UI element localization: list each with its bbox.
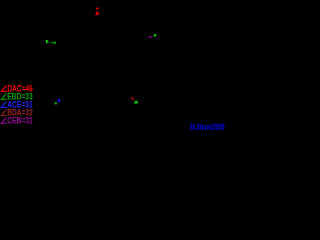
angle wedge at C (angle ACE, blue): [57, 98, 61, 102]
angle wedge at A (angle DAC, red): [95, 10, 99, 15]
vertex B marker nub: [48, 41, 49, 43]
angle symbol for line 5: [1, 118, 6, 124]
vertex B point marker (bright green bar): [46, 40, 48, 43]
angle symbol for line 3: [1, 102, 6, 108]
angle wedge near B (angle EBD, green): [49, 41, 56, 44]
vertex A point marker (red arc): [96, 8, 99, 10]
angle symbol for line 1: [1, 86, 6, 92]
vertex D point marker (green flag): [134, 101, 138, 104]
vertex C point marker (green square): [55, 102, 57, 104]
angle wedge at D (angle BDA, dark red streak): [131, 97, 134, 100]
angle symbol for line 2: [1, 94, 6, 100]
svg-text:M.Show/2009: M.Show/2009: [190, 122, 225, 132]
svg-text:CEB=31: CEB=31: [7, 116, 33, 126]
angle wedge near E (angle CEB, magenta): [149, 36, 153, 38]
angle symbol for line 4: [1, 110, 6, 116]
vertex E point marker (bright green flag): [153, 34, 156, 37]
